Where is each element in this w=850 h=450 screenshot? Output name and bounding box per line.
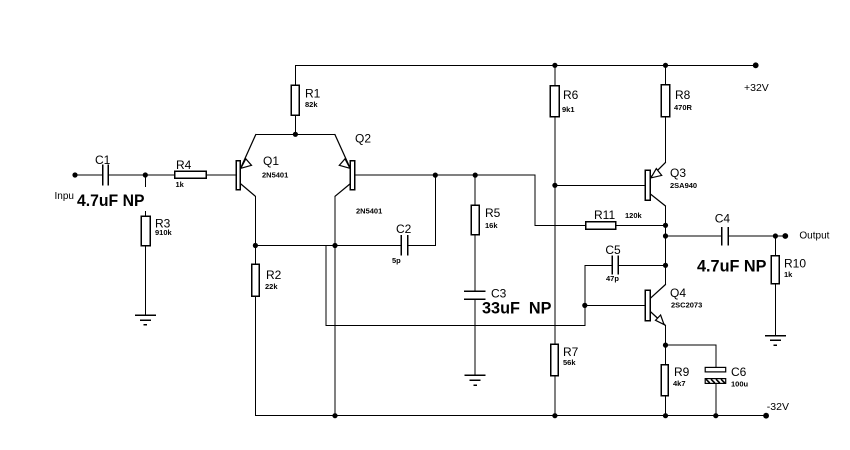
transistor Q3 base bar: [645, 170, 650, 200]
node R7 rail junction: [552, 413, 557, 418]
node Q3 base junction: [552, 183, 557, 188]
wire C2 right to corner: [408, 245, 435, 247]
wire R6 top lead: [554, 65, 556, 85]
wire Q4 collector up: [665, 265, 667, 284]
ground R10: [765, 336, 786, 346]
resistor R2: [252, 264, 260, 296]
resistor R4: [175, 171, 206, 178]
wire Q4 base: [585, 304, 646, 306]
wire feedback row to Q4 base: [326, 324, 585, 326]
wire R3 top stub upper: [144, 175, 146, 186]
svg-text:2N5401: 2N5401: [262, 171, 288, 180]
svg-text:Inpu: Inpu: [55, 191, 74, 202]
svg-text:910k: 910k: [155, 228, 173, 237]
wire R8 bottom to Q3 emitter: [665, 117, 667, 163]
svg-text:120k: 120k: [625, 211, 643, 220]
wire emitter rail Q1-Q2: [256, 133, 335, 135]
node Q4 base junction: [582, 303, 587, 308]
wire Q4 emitter diagonal: [650, 312, 665, 326]
resistor R6: [550, 86, 559, 117]
wire Q1 emitter diagonal: [240, 135, 256, 169]
transistor Q1 base bar: [236, 161, 240, 190]
resistor R8: [661, 85, 670, 117]
svg-text:9k1: 9k1: [562, 105, 575, 114]
node R6 top rail junction: [552, 63, 557, 68]
wire C5 left down to base node: [584, 265, 586, 325]
wire R1 top lead: [295, 65, 297, 85]
resistor R5: [471, 205, 479, 234]
svg-text:R6: R6: [563, 88, 579, 102]
transistor Q4 base bar: [645, 290, 650, 320]
node Q4 emitter junction: [663, 343, 668, 348]
svg-text:4.7uF NP: 4.7uF NP: [697, 256, 767, 275]
ground C3: [465, 375, 486, 385]
svg-text:1k: 1k: [784, 270, 793, 279]
svg-text:2SA940: 2SA940: [670, 181, 697, 190]
svg-text:5p: 5p: [392, 256, 401, 265]
wire R7 bottom to rail: [554, 376, 556, 416]
svg-text:470R: 470R: [674, 103, 693, 112]
wire R6 bottom to R7: [554, 117, 556, 344]
wire node to R4: [145, 174, 175, 176]
svg-text:R9: R9: [674, 365, 690, 379]
wire Q1 collector diagonal: [240, 184, 255, 197]
svg-text:Q3: Q3: [670, 166, 686, 180]
svg-text:C4: C4: [715, 212, 731, 226]
wire C5 row right: [619, 264, 666, 266]
svg-text:R4: R4: [176, 158, 192, 172]
svg-text:C5: C5: [605, 243, 621, 257]
wire Q3 collector diagonal: [650, 194, 665, 206]
svg-text:Output: Output: [799, 231, 829, 242]
wire R9 top lead: [665, 345, 667, 365]
svg-text:100u: 100u: [731, 380, 749, 389]
svg-text:R7: R7: [563, 345, 579, 359]
svg-text:22k: 22k: [265, 282, 278, 291]
wire R4 to Q1 base: [206, 174, 236, 176]
svg-text:Q1: Q1: [263, 154, 279, 168]
svg-text:Q2: Q2: [355, 131, 371, 145]
wire C5 row left: [585, 264, 612, 266]
svg-text:47p: 47p: [606, 274, 619, 283]
wire Q3 base: [555, 184, 645, 186]
node R10 output junction: [773, 233, 778, 238]
svg-text:82k: 82k: [305, 100, 318, 109]
transistor Q1 emitter arrow: [241, 159, 252, 169]
wire collector row Q1-Q2: [255, 245, 400, 247]
node C5 collector junction: [663, 263, 668, 268]
node R5 base junction: [473, 173, 478, 178]
capacitor C3: [464, 291, 485, 299]
wire C1 to node: [109, 174, 145, 176]
svg-text:+32V: +32V: [744, 82, 769, 94]
capacitor C1: [103, 165, 109, 186]
capacitor C2: [401, 235, 408, 255]
wire C4 row left: [666, 235, 722, 237]
wire Q2 collector diagonal: [335, 184, 351, 197]
node C2 base junction: [433, 173, 438, 178]
wire R2 bottom lead to rail: [254, 296, 256, 416]
wire R2 top lead: [254, 246, 256, 265]
node C6 rail junction: [713, 413, 718, 418]
node R8 top rail junction: [663, 63, 668, 68]
svg-text:R8: R8: [675, 88, 691, 102]
wire C4 row right to output: [729, 235, 785, 237]
svg-text:-32V: -32V: [767, 401, 789, 413]
wire R8 top lead: [665, 65, 667, 84]
wire C6 bottom to rail: [715, 383, 717, 415]
node input terminal: [72, 172, 77, 177]
wire top rail +32V: [296, 64, 756, 66]
svg-text:R2: R2: [266, 268, 282, 282]
svg-text:1k: 1k: [176, 180, 185, 189]
wire Q3 emitter diagonal: [650, 162, 665, 177]
node R1 emitter rail junction: [293, 132, 298, 137]
resistor R3: [141, 216, 150, 245]
transistor Q2 emitter arrow: [339, 159, 350, 169]
capacitor C4: [722, 227, 729, 245]
svg-text:R1: R1: [305, 87, 321, 101]
node R11 output junction: [663, 223, 668, 228]
transistor Q2 base bar: [350, 161, 354, 190]
ground R3: [135, 315, 156, 325]
wire to R11 left: [535, 224, 585, 226]
node +32V terminal: [753, 62, 759, 68]
wire R5 top lead: [474, 175, 476, 205]
svg-text:56k: 56k: [563, 358, 576, 367]
wire corner down to R11 row: [534, 175, 536, 225]
resistor R11: [586, 222, 616, 230]
wire Q3 collector down output node: [665, 206, 667, 265]
wire Q2 emitter diagonal: [335, 135, 351, 169]
svg-text:2N5401: 2N5401: [356, 206, 382, 215]
resistor R1: [291, 85, 299, 115]
wire R3 top stub lower: [144, 212, 146, 217]
svg-text:Q4: Q4: [670, 286, 686, 300]
node output terminal: [782, 233, 788, 239]
wire Q4 emitter down: [665, 326, 667, 346]
svg-text:C1: C1: [95, 153, 111, 167]
node C4 output junction: [663, 233, 668, 238]
wire Q2 base row: [355, 174, 535, 176]
wire bottom rail -32V: [255, 415, 766, 417]
wire R5 bottom to C3: [474, 235, 476, 292]
capacitor C6 polarized: [705, 367, 726, 383]
wire Q1 collector down: [254, 196, 256, 245]
resistor R7: [551, 344, 559, 376]
wire input to C1: [75, 174, 102, 176]
wire branch down from collector row: [325, 246, 327, 326]
wire C6 top lead: [715, 345, 717, 367]
resistor R10: [771, 256, 779, 284]
node Q2 collector rail junction: [332, 413, 337, 418]
wire Q4 emitter node to C6 branch: [666, 344, 716, 346]
node -32V terminal: [763, 413, 769, 419]
wire Q4 collector diagonal: [650, 285, 665, 299]
node C1-R4-R3 junction: [143, 172, 148, 177]
svg-text:R11: R11: [594, 208, 615, 222]
wire R1 bottom lead: [295, 115, 297, 134]
resistor R9: [661, 365, 668, 396]
transistor Q3 emitter arrow: [651, 169, 662, 178]
node Q2 collector junction: [332, 243, 337, 248]
svg-text:C2: C2: [396, 222, 412, 236]
wire R11 right to node: [616, 224, 666, 226]
wire R9 bottom to rail: [665, 396, 667, 416]
transistor Q4 emitter arrow: [656, 315, 665, 325]
svg-text:16k: 16k: [485, 221, 498, 230]
svg-text:4k7: 4k7: [673, 379, 686, 388]
svg-text:C6: C6: [731, 365, 747, 379]
capacitor C5: [612, 256, 618, 275]
wire C2 corner up to base row: [434, 175, 436, 245]
svg-text:R10: R10: [784, 257, 806, 271]
wire R3 bottom lead to ground: [144, 246, 146, 316]
wire C3 bottom to ground: [474, 299, 476, 375]
wire R10 bottom to ground: [774, 284, 776, 336]
svg-text:4.7uF NP: 4.7uF NP: [77, 191, 145, 210]
wire Q2 collector down to rail: [334, 196, 336, 415]
wire R10 top lead: [774, 236, 776, 256]
svg-text:R5: R5: [485, 206, 501, 220]
node Q1 collector junction: [253, 243, 258, 248]
node R9 rail junction: [663, 413, 668, 418]
svg-text:33uF NP: 33uF NP: [482, 299, 552, 318]
svg-text:2SC2073: 2SC2073: [671, 300, 702, 309]
